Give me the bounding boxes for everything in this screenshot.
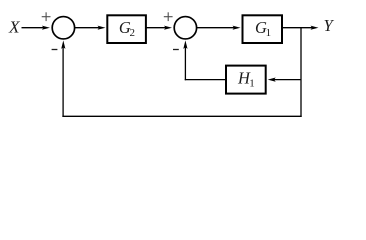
arrowhead up into S2	[183, 40, 187, 49]
block H1	[226, 66, 266, 94]
wire feedback vertical up into S2	[184, 47, 186, 80]
arrowhead into H1	[268, 78, 276, 82]
summing junction S2	[174, 17, 196, 39]
minus sign at S1	[52, 49, 58, 51]
block G1	[243, 15, 283, 43]
wire G2 to summing junction S2	[146, 27, 166, 29]
wire X to summing junction S1	[22, 27, 44, 29]
wire outer feedback left vertical up into S1	[62, 47, 64, 117]
block G2	[107, 15, 146, 43]
summing junction S1	[52, 17, 74, 39]
arrowhead into G1	[233, 26, 241, 30]
svg-text:X: X	[8, 18, 21, 37]
arrowhead to Y	[311, 26, 319, 30]
wire H1 output to S2 feedback corner	[185, 79, 226, 81]
arrowhead into S1	[42, 26, 50, 30]
wire pickoff vertical down	[300, 27, 302, 117]
plus sign at S1	[42, 12, 51, 21]
arrowhead up into S1	[61, 40, 65, 49]
wire S1 to block G2	[75, 27, 100, 29]
wire S2 to block G1	[197, 27, 235, 29]
svg-text:1: 1	[266, 27, 272, 39]
arrowhead into S2	[164, 26, 172, 30]
svg-text:1: 1	[249, 78, 255, 90]
minus sign at S2	[173, 49, 179, 51]
svg-text:2: 2	[130, 27, 136, 39]
plus sign at S2	[164, 12, 173, 21]
wire G1 to output Y	[282, 27, 312, 29]
wire pickoff to H1 input	[274, 79, 301, 81]
arrowhead into G2	[98, 26, 106, 30]
wire outer feedback bottom	[62, 115, 301, 117]
